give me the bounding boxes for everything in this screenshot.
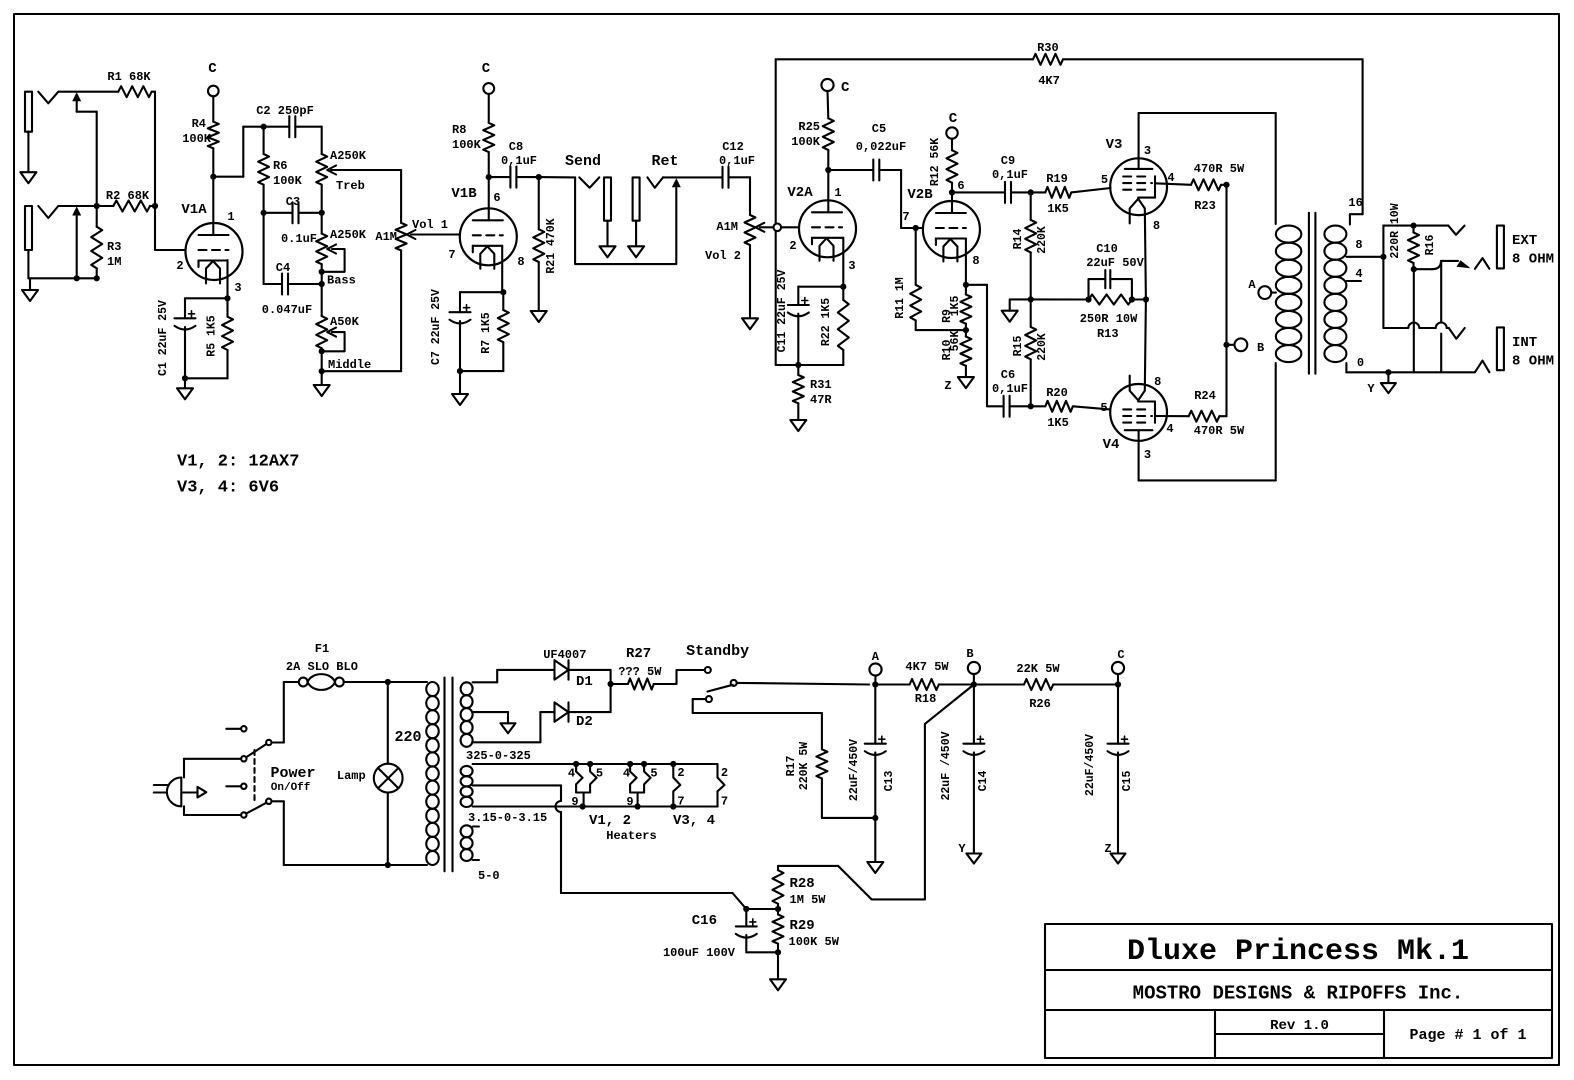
svg-text:C4: C4 bbox=[276, 261, 290, 275]
svg-text:Rev 1.0: Rev 1.0 bbox=[1270, 1018, 1329, 1034]
svg-text:6: 6 bbox=[957, 179, 964, 193]
svg-text:470R 5W: 470R 5W bbox=[1194, 424, 1245, 438]
svg-text:Y: Y bbox=[1367, 382, 1375, 396]
svg-text:R22 1K5: R22 1K5 bbox=[820, 298, 833, 346]
svg-text:Send: Send bbox=[565, 153, 601, 170]
svg-text:On/Off: On/Off bbox=[271, 782, 311, 794]
svg-text:470R 5W: 470R 5W bbox=[1194, 162, 1245, 176]
svg-text:220: 220 bbox=[394, 729, 421, 746]
svg-text:??? 5W: ??? 5W bbox=[618, 665, 662, 679]
svg-text:1M: 1M bbox=[107, 255, 121, 269]
svg-text:A50K: A50K bbox=[330, 315, 360, 329]
svg-text:R29: R29 bbox=[790, 918, 815, 934]
svg-text:C13: C13 bbox=[883, 771, 896, 792]
svg-text:220R 10W: 220R 10W bbox=[1389, 203, 1402, 258]
svg-text:R1 68K: R1 68K bbox=[107, 70, 151, 84]
svg-text:R8: R8 bbox=[452, 123, 466, 137]
svg-text:Heaters: Heaters bbox=[606, 829, 656, 843]
svg-text:1K5: 1K5 bbox=[1047, 416, 1069, 430]
svg-text:2: 2 bbox=[677, 766, 684, 780]
svg-text:1M 5W: 1M 5W bbox=[790, 893, 827, 907]
svg-text:V3: V3 bbox=[1106, 137, 1123, 153]
svg-text:9: 9 bbox=[571, 795, 578, 809]
svg-text:R3: R3 bbox=[107, 240, 121, 254]
svg-text:1: 1 bbox=[834, 186, 841, 200]
svg-text:8 OHM: 8 OHM bbox=[1512, 252, 1554, 268]
svg-text:3: 3 bbox=[234, 281, 241, 295]
svg-text:5: 5 bbox=[650, 767, 657, 781]
svg-text:C9: C9 bbox=[1001, 154, 1015, 168]
svg-text:R12 56K: R12 56K bbox=[929, 138, 942, 186]
svg-text:F1: F1 bbox=[315, 642, 329, 656]
svg-text:Y: Y bbox=[958, 842, 966, 856]
svg-text:100K 5W: 100K 5W bbox=[789, 935, 840, 949]
svg-text:5: 5 bbox=[596, 767, 603, 781]
svg-text:Ret: Ret bbox=[651, 153, 678, 170]
svg-text:B: B bbox=[1257, 341, 1264, 355]
svg-text:R7 1K5: R7 1K5 bbox=[480, 312, 493, 354]
svg-text:C6: C6 bbox=[1001, 368, 1015, 382]
svg-text:R11 1M: R11 1M bbox=[894, 277, 907, 319]
svg-text:V1B: V1B bbox=[451, 186, 477, 202]
svg-text:C1 22uF 25V: C1 22uF 25V bbox=[157, 300, 170, 376]
svg-text:8 OHM: 8 OHM bbox=[1512, 354, 1554, 370]
svg-text:5-0: 5-0 bbox=[478, 869, 500, 883]
svg-text:C5: C5 bbox=[872, 122, 886, 136]
svg-text:C10: C10 bbox=[1096, 242, 1118, 256]
svg-text:C12: C12 bbox=[722, 140, 744, 154]
svg-text:V2B: V2B bbox=[907, 187, 933, 203]
svg-text:3.15-0-3.15: 3.15-0-3.15 bbox=[468, 811, 547, 825]
svg-text:Treb: Treb bbox=[336, 179, 365, 193]
svg-text:EXT: EXT bbox=[1512, 233, 1537, 249]
svg-text:R5 1K5: R5 1K5 bbox=[206, 315, 219, 357]
svg-text:4: 4 bbox=[623, 767, 630, 781]
svg-text:22uF/450V: 22uF/450V bbox=[848, 739, 861, 801]
svg-text:3: 3 bbox=[1144, 144, 1151, 158]
svg-text:D2: D2 bbox=[576, 714, 593, 730]
svg-text:R26: R26 bbox=[1029, 697, 1051, 711]
svg-text:2: 2 bbox=[789, 239, 796, 253]
svg-text:C: C bbox=[949, 111, 958, 127]
svg-text:R17: R17 bbox=[785, 756, 798, 777]
svg-text:V3, 4: V3, 4 bbox=[673, 813, 715, 829]
svg-text:R4: R4 bbox=[192, 117, 206, 131]
svg-text:22uF/450V: 22uF/450V bbox=[1084, 734, 1097, 796]
svg-text:8: 8 bbox=[1153, 219, 1160, 233]
svg-text:8: 8 bbox=[1355, 238, 1362, 252]
svg-text:2: 2 bbox=[721, 766, 728, 780]
svg-text:47R: 47R bbox=[810, 393, 832, 407]
svg-text:R24: R24 bbox=[1194, 389, 1216, 403]
svg-text:100uF 100V: 100uF 100V bbox=[663, 946, 736, 960]
svg-text:Dluxe Princess Mk.1: Dluxe Princess Mk.1 bbox=[1127, 935, 1469, 969]
svg-text:B: B bbox=[966, 647, 973, 661]
svg-text:22uF 50V: 22uF 50V bbox=[1086, 256, 1144, 270]
svg-text:0,1uF: 0,1uF bbox=[992, 382, 1028, 396]
svg-text:0.047uF: 0.047uF bbox=[262, 303, 312, 317]
svg-text:6: 6 bbox=[493, 191, 500, 205]
svg-text:4K7: 4K7 bbox=[1038, 74, 1060, 88]
svg-text:C7 22uF 25V: C7 22uF 25V bbox=[430, 289, 443, 365]
svg-text:V1A: V1A bbox=[181, 202, 207, 218]
svg-text:4: 4 bbox=[1355, 267, 1362, 281]
svg-text:5: 5 bbox=[1100, 401, 1107, 415]
svg-text:R13: R13 bbox=[1097, 327, 1119, 341]
svg-text:Z: Z bbox=[944, 379, 951, 393]
svg-text:220K: 220K bbox=[1036, 333, 1049, 361]
svg-text:R18: R18 bbox=[915, 692, 937, 706]
svg-text:C3: C3 bbox=[286, 195, 300, 209]
svg-text:Power: Power bbox=[270, 765, 315, 782]
svg-text:22K 5W: 22K 5W bbox=[1016, 662, 1060, 676]
svg-text:100K: 100K bbox=[791, 135, 821, 149]
svg-text:R21 470K: R21 470K bbox=[545, 218, 558, 273]
svg-text:R31: R31 bbox=[810, 378, 832, 392]
svg-text:4: 4 bbox=[568, 767, 575, 781]
svg-text:V2A: V2A bbox=[787, 185, 813, 201]
svg-text:C2 250pF: C2 250pF bbox=[256, 104, 314, 118]
svg-text:R16: R16 bbox=[1424, 235, 1437, 256]
svg-text:3: 3 bbox=[848, 259, 855, 273]
svg-text:220K 5W: 220K 5W bbox=[798, 742, 811, 790]
svg-text:8: 8 bbox=[972, 254, 979, 268]
svg-text:100K: 100K bbox=[273, 174, 303, 188]
svg-text:3: 3 bbox=[1144, 448, 1151, 462]
svg-text:22uF /450V: 22uF /450V bbox=[940, 731, 953, 800]
svg-text:0,1uF: 0,1uF bbox=[719, 154, 755, 168]
svg-text:Middle: Middle bbox=[328, 358, 371, 372]
svg-text:16: 16 bbox=[1348, 196, 1362, 210]
svg-text:V1, 2: 12AX7: V1, 2: 12AX7 bbox=[177, 453, 299, 472]
svg-text:C11 22uF 25V: C11 22uF 25V bbox=[776, 270, 789, 353]
svg-text:5: 5 bbox=[1101, 173, 1108, 187]
svg-text:R28: R28 bbox=[790, 876, 815, 892]
svg-text:0,1uF: 0,1uF bbox=[992, 168, 1028, 182]
svg-text:A: A bbox=[872, 650, 880, 664]
svg-text:INT: INT bbox=[1512, 335, 1537, 351]
svg-text:Vol 1: Vol 1 bbox=[412, 218, 448, 232]
svg-text:220K: 220K bbox=[1036, 226, 1049, 254]
svg-text:R27: R27 bbox=[626, 646, 651, 662]
svg-text:Vol 2: Vol 2 bbox=[705, 249, 741, 263]
svg-text:A250K: A250K bbox=[330, 149, 367, 163]
svg-text:250R 10W: 250R 10W bbox=[1080, 312, 1138, 326]
svg-text:2: 2 bbox=[176, 259, 183, 273]
svg-text:C: C bbox=[482, 61, 491, 77]
svg-text:C: C bbox=[841, 80, 850, 96]
svg-text:9: 9 bbox=[626, 795, 633, 809]
svg-text:100K: 100K bbox=[182, 132, 212, 146]
svg-text:R30: R30 bbox=[1037, 41, 1059, 55]
svg-text:8: 8 bbox=[1154, 375, 1161, 389]
svg-text:A: A bbox=[1248, 278, 1256, 292]
svg-text:100K: 100K bbox=[452, 138, 482, 152]
svg-text:1: 1 bbox=[227, 210, 234, 224]
svg-text:56K: 56K bbox=[949, 331, 962, 352]
svg-text:Z: Z bbox=[1104, 842, 1111, 856]
svg-text:7: 7 bbox=[448, 248, 455, 262]
svg-text:0,1uF: 0,1uF bbox=[501, 154, 537, 168]
svg-text:A1M: A1M bbox=[375, 230, 397, 244]
svg-text:R19: R19 bbox=[1046, 172, 1068, 186]
svg-text:R20: R20 bbox=[1046, 386, 1068, 400]
svg-text:4: 4 bbox=[1166, 422, 1173, 436]
svg-text:C14: C14 bbox=[977, 771, 990, 792]
svg-text:C16: C16 bbox=[692, 913, 717, 929]
svg-text:R6: R6 bbox=[273, 159, 287, 173]
svg-text:7: 7 bbox=[677, 795, 684, 809]
svg-text:A1M: A1M bbox=[716, 220, 738, 234]
svg-text:D1: D1 bbox=[576, 674, 593, 690]
svg-text:0: 0 bbox=[1357, 356, 1364, 370]
svg-text:C: C bbox=[1117, 648, 1124, 662]
svg-text:C8: C8 bbox=[509, 140, 523, 154]
svg-text:2A SLO BLO: 2A SLO BLO bbox=[286, 660, 358, 674]
svg-text:0.1uF: 0.1uF bbox=[281, 232, 317, 246]
svg-text:R15: R15 bbox=[1012, 336, 1025, 357]
svg-text:Lamp: Lamp bbox=[337, 769, 366, 783]
svg-text:MOSTRO DESIGNS & RIPOFFS Inc.: MOSTRO DESIGNS & RIPOFFS Inc. bbox=[1133, 983, 1464, 1005]
svg-text:8: 8 bbox=[517, 255, 524, 269]
svg-text:4K7 5W: 4K7 5W bbox=[905, 660, 949, 674]
svg-text:Bass: Bass bbox=[327, 274, 356, 288]
svg-text:325-0-325: 325-0-325 bbox=[466, 749, 531, 763]
svg-text:R25: R25 bbox=[798, 120, 820, 134]
svg-text:V1, 2: V1, 2 bbox=[589, 813, 631, 829]
svg-text:7: 7 bbox=[902, 210, 909, 224]
svg-text:R23: R23 bbox=[1194, 199, 1216, 213]
svg-text:C: C bbox=[208, 61, 217, 77]
svg-text:4: 4 bbox=[1167, 171, 1174, 185]
svg-text:Page # 1 of 1: Page # 1 of 1 bbox=[1409, 1027, 1526, 1044]
svg-text:V4: V4 bbox=[1103, 437, 1120, 453]
svg-text:C15: C15 bbox=[1121, 771, 1134, 792]
svg-text:7: 7 bbox=[721, 795, 728, 809]
svg-text:0,022uF: 0,022uF bbox=[856, 140, 906, 154]
svg-text:R14: R14 bbox=[1012, 229, 1025, 250]
svg-text:1K5: 1K5 bbox=[949, 296, 962, 317]
svg-text:UF4007: UF4007 bbox=[543, 648, 586, 662]
svg-text:R2 68K: R2 68K bbox=[106, 189, 150, 203]
svg-text:Standby: Standby bbox=[686, 643, 749, 660]
svg-text:A250K: A250K bbox=[330, 228, 367, 242]
svg-text:1K5: 1K5 bbox=[1047, 202, 1069, 216]
svg-text:V3, 4: 6V6: V3, 4: 6V6 bbox=[177, 479, 279, 498]
